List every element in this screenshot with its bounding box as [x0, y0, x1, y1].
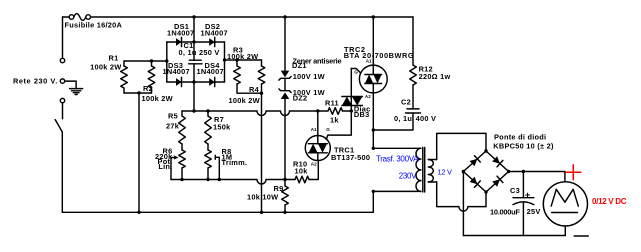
- node bridge left: [462, 170, 465, 173]
- wire C1 column upper: [193, 17, 195, 60]
- wire R8 bottom stub: [207, 168, 209, 180]
- wire bridge minus column: [462, 172, 464, 236]
- resistor R1: [121, 66, 128, 88]
- node bridge bottom: [484, 190, 487, 193]
- svg-text:100k 2W: 100k 2W: [227, 52, 258, 61]
- svg-text:R4: R4: [249, 85, 260, 94]
- node rail C1: [192, 109, 195, 112]
- wire R10 ends: [285, 161, 318, 180]
- diode DS1 1N4007: [176, 37, 182, 46]
- node R8 bottom: [206, 178, 209, 181]
- node C2 return: [372, 128, 375, 131]
- wire DS1 row: [167, 41, 194, 43]
- resistor R3: [234, 66, 241, 84]
- svg-text:1k: 1k: [330, 116, 339, 125]
- node R11 right diac: [350, 109, 353, 112]
- svg-text:R11: R11: [325, 99, 339, 108]
- ground: [70, 89, 83, 95]
- svg-text:0, 1u: 0, 1u: [394, 114, 412, 123]
- resistor R2: [148, 66, 155, 88]
- wire secondary top to bridge: [437, 133, 486, 159]
- wire R9 stubs: [284, 180, 286, 213]
- diode DS4 1N4007: [209, 77, 215, 86]
- node R11 left: [316, 109, 319, 112]
- wire TRC2 A2 column: [372, 93, 374, 148]
- svg-text:R1: R1: [109, 54, 119, 63]
- svg-text:12 V: 12 V: [438, 168, 453, 177]
- svg-text:150k: 150k: [213, 123, 231, 132]
- node rail bottom R9: [283, 211, 286, 214]
- wire R5 stubs: [181, 111, 183, 150]
- wire R2 stubs: [151, 61, 153, 93]
- svg-text:Trasf. 300VA: Trasf. 300VA: [376, 155, 419, 164]
- svg-text:0/12 V DC: 0/12 V DC: [592, 197, 627, 206]
- wire DS3 row: [167, 81, 194, 83]
- switch S1 blade: [55, 120, 62, 132]
- wire R6 bottom stub: [181, 168, 183, 180]
- node primary top: [372, 147, 375, 150]
- triac TRC2 BTA 20-700BWRG: [359, 17, 387, 93]
- wire to ground: [65, 81, 76, 89]
- wire R12 to C2: [412, 85, 414, 109]
- wire C2 bottom return: [373, 113, 413, 130]
- svg-text:220Ω 1w: 220Ω 1w: [419, 72, 451, 81]
- plus symbol red: [566, 165, 581, 180]
- svg-text:DB3: DB3: [354, 110, 370, 119]
- node R1R2 top right: [165, 59, 168, 62]
- wire DS2 DS4 cathode column: [224, 42, 226, 82]
- capacitor C3 10.000uF 25V: [513, 172, 534, 236]
- zener DZ2 100V 1W: [279, 78, 291, 179]
- fuse F1 Fusibile 16/20A: [69, 14, 90, 21]
- node C1 top: [192, 40, 195, 43]
- svg-text:A1: A1: [311, 127, 317, 132]
- wire C1 column lower: [193, 64, 195, 111]
- svg-text:R2: R2: [143, 84, 153, 93]
- wire R4 column to bottom rail: [261, 93, 263, 212]
- node R8 wiper: [218, 178, 221, 181]
- diode DS3 1N4007: [176, 77, 182, 86]
- svg-text:DZ1: DZ1: [292, 61, 307, 70]
- node C1 bottom: [192, 80, 195, 83]
- svg-text:1N4007: 1N4007: [201, 29, 228, 38]
- svg-text:100k 2W: 100k 2W: [229, 96, 260, 105]
- wiper R6 arrow: [171, 156, 179, 180]
- resistor R9 10k 10W: [282, 186, 289, 205]
- node top rail C1: [192, 15, 195, 18]
- svg-text:100V 1W: 100V 1W: [293, 72, 325, 81]
- svg-text:27k: 27k: [166, 121, 180, 130]
- svg-text:BTA 20-700BWRG: BTA 20-700BWRG: [344, 51, 415, 60]
- diac DB3: [342, 69, 363, 112]
- terminal lower: [60, 98, 64, 102]
- svg-text:10k: 10k: [295, 167, 309, 176]
- wire R12 top from rail: [412, 17, 414, 65]
- wire DS2 row: [194, 41, 225, 43]
- minus symbol: [574, 235, 588, 237]
- diode DS2 1N4007: [209, 37, 215, 46]
- node rail bottom R1R2: [137, 211, 140, 214]
- svg-text:DZ2: DZ2: [293, 93, 308, 102]
- svg-text:A2: A2: [311, 162, 317, 167]
- bridge diode TR: [492, 156, 503, 167]
- wire R11 ends: [318, 110, 352, 112]
- svg-text:KBPC50 10 (± 2): KBPC50 10 (± 2): [493, 142, 554, 151]
- resistor R5: [179, 116, 186, 144]
- resistor R11 1k: [328, 108, 343, 115]
- resistor R7: [205, 116, 212, 144]
- svg-text:Ponte di diodi: Ponte di diodi: [494, 133, 546, 142]
- wire DS4 row: [194, 81, 225, 83]
- wire primary bottom column: [372, 191, 374, 212]
- wire left column from fuse: [62, 17, 64, 58]
- node top rail TRC2: [372, 15, 375, 18]
- zener DZ1 100V 1W: [279, 17, 291, 80]
- wire to switch: [62, 103, 64, 119]
- svg-text:C2: C2: [401, 98, 411, 107]
- motor M 0/12V DC: [543, 182, 587, 226]
- node bridge top: [484, 149, 487, 152]
- bridge KBPC50 diamond: [463, 151, 508, 192]
- svg-text:G: G: [326, 127, 330, 132]
- svg-text:A1: A1: [366, 59, 372, 64]
- svg-text:Fusibile 16/20A: Fusibile 16/20A: [65, 21, 123, 30]
- wiper R8 tap: [215, 155, 219, 179]
- svg-text:Trimm.: Trimm.: [222, 158, 248, 167]
- wire TRC2 gate: [351, 69, 360, 74]
- node R2 top: [150, 59, 153, 62]
- node R1R2 bottom: [137, 91, 140, 94]
- node DS2 DS4 cathode: [223, 58, 226, 61]
- node R3 top: [235, 58, 238, 61]
- wire R1 R2 bottom: [124, 92, 152, 94]
- svg-text:1N4007: 1N4007: [167, 29, 194, 38]
- wire pots bottom line with hop: [171, 180, 285, 185]
- node R3R4 bottom: [260, 92, 263, 95]
- svg-text:Lin.: Lin.: [158, 162, 172, 171]
- capacitor C2 0,1u 400V: [406, 109, 421, 113]
- node rail bottom R4: [260, 211, 263, 214]
- node primary bottom: [372, 190, 375, 193]
- svg-text:BT137-500: BT137-500: [331, 153, 370, 162]
- svg-text:230V: 230V: [399, 172, 417, 181]
- triac TRC1 BT137-500: [305, 111, 330, 161]
- node gate divider: [283, 178, 286, 181]
- resistor R10 10k: [295, 176, 309, 183]
- svg-text:100k 2W: 100k 2W: [142, 94, 173, 103]
- svg-text:A2: A2: [365, 94, 371, 99]
- svg-text:0, 1u: 0, 1u: [179, 48, 197, 57]
- trimmer R8 1M: [205, 150, 212, 168]
- svg-text:10.000uF: 10.000uF: [490, 208, 520, 217]
- wire gate rail with hops: [182, 111, 318, 116]
- wire R4 stubs: [261, 60, 263, 93]
- svg-text:25V: 25V: [527, 207, 541, 216]
- wire motor bottom stub: [564, 226, 566, 236]
- wire dc plus: [509, 172, 565, 182]
- wire R1 R2 top: [124, 60, 167, 62]
- svg-text:10k 10W: 10k 10W: [247, 193, 278, 202]
- resistor R4: [258, 66, 265, 84]
- transformer T1 secondary: [428, 160, 436, 183]
- wire bottom rail: [62, 211, 373, 213]
- bridge diode BR: [492, 176, 503, 187]
- bridge diode LB: [470, 177, 481, 188]
- svg-text:250 V: 250 V: [199, 48, 220, 57]
- wire R1R2 to bottom rail: [138, 93, 140, 212]
- svg-text:R5: R5: [168, 112, 178, 121]
- wire R3 stubs: [237, 60, 262, 93]
- wire R3 R4 top: [225, 59, 262, 61]
- transformer T1 primary: [373, 148, 421, 191]
- node bridge right: [507, 170, 510, 173]
- node R6 bottom: [180, 178, 183, 181]
- svg-text:Rete 230 V.: Rete 230 V.: [13, 77, 58, 86]
- wire dc minus rail: [463, 235, 565, 237]
- wire R1 stubs: [123, 61, 125, 93]
- wire switch to bottom rail: [61, 132, 63, 212]
- svg-text:400 V: 400 V: [416, 114, 437, 123]
- svg-text:1N4007: 1N4007: [163, 67, 190, 76]
- node rail R7: [206, 109, 209, 112]
- bridge diode LT: [470, 156, 481, 167]
- svg-text:C3: C3: [510, 186, 520, 195]
- svg-text:+: +: [525, 190, 531, 201]
- node C3 plus: [522, 170, 525, 173]
- node top rail DZ: [283, 15, 286, 18]
- wire R7 stubs: [207, 111, 209, 150]
- svg-text:100k 2W: 100k 2W: [90, 63, 121, 72]
- svg-text:G: G: [354, 70, 358, 75]
- terminal mains live: [60, 79, 64, 83]
- resistor R12 220ohm 1w: [410, 65, 417, 85]
- capacitor C1 0,1u 250V: [189, 60, 202, 64]
- wire top rail: [63, 16, 414, 18]
- wire secondary bottom to bridge with hop: [437, 182, 486, 211]
- terminal upper: [60, 58, 64, 62]
- svg-text:1N4007: 1N4007: [197, 67, 224, 76]
- transformer core: [423, 148, 425, 193]
- potentiometer R6 220k: [179, 150, 186, 168]
- wire TRC1 gate: [326, 111, 351, 140]
- wire DS1 DS3 anode column: [166, 42, 168, 82]
